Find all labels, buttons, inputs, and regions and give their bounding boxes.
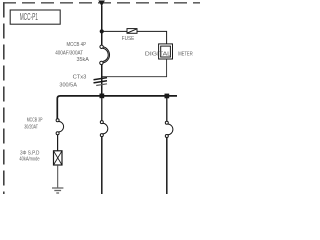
svg-text:35kA: 35kA (77, 57, 90, 63)
label 3P S.P.D / 40kA/mode (19, 151, 39, 163)
svg-text:FUSE: FUSE (122, 36, 135, 42)
digital meter M (159, 44, 173, 59)
wire: meter to CT secondary tap (103, 59, 167, 77)
svg-text:MCCB 4P: MCCB 4P (67, 42, 87, 48)
enclosure left dashed border (3, 3, 5, 195)
wire: feeder 3 load (166, 138, 168, 195)
surge protective device SPD (54, 151, 63, 165)
label CTx3 / 300/5A (59, 75, 86, 89)
wire: feeder 3 drop (166, 96, 168, 121)
wire: breaker to SPD (57, 135, 59, 151)
label MCCB 3P / 30/20AT (24, 118, 43, 131)
circuit breaker feeder 2 (100, 121, 107, 137)
svg-text:MCCB 3P: MCCB 3P (27, 118, 43, 124)
wire: SPD to ground (57, 165, 59, 188)
svg-text:MCC-P1: MCC-P1 (20, 12, 38, 23)
fuse FUSE (127, 29, 137, 34)
wire: fuse to meter (137, 31, 167, 44)
incoming feeder arrow (98, 1, 105, 7)
node: bus junction mid (100, 94, 105, 99)
circuit breaker feeder 3 (165, 121, 173, 137)
wire: feeder 2 load (101, 137, 103, 194)
node: bus junction right (165, 94, 170, 99)
svg-text:METER: METER (178, 51, 193, 57)
panel label box (10, 10, 60, 24)
wire: feeder 2 drop (101, 96, 103, 121)
node: fuse tap junction (100, 29, 104, 33)
circuit breaker MCCB 4P (main) (100, 45, 110, 65)
ground (52, 188, 63, 193)
wire: breaker to bus (101, 65, 103, 96)
svg-text:40kA/mode: 40kA/mode (19, 157, 39, 163)
wire: fuse branch (102, 30, 127, 32)
bus bar (57, 96, 177, 119)
enclosure top dashed border (3, 2, 200, 4)
svg-text:30/20AT: 30/20AT (24, 124, 38, 130)
circuit breaker MCCB 3P (SPD feeder) (56, 119, 64, 135)
wire: incoming main drop (101, 6, 103, 46)
svg-text:400AF/300AT: 400AF/300AT (55, 50, 83, 56)
svg-text:300/5A: 300/5A (59, 83, 77, 89)
current transformer CTx3 (94, 78, 108, 86)
svg-text:CTx3: CTx3 (73, 75, 87, 81)
svg-text:DIGITAL: DIGITAL (145, 51, 172, 57)
label MCCB 4P / 400AF/300AT / 35kA (55, 42, 89, 63)
